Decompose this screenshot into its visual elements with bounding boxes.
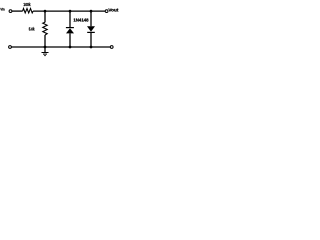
node junction dot bottom of R2 [44, 46, 47, 49]
node junction dot top of D2 [90, 10, 93, 13]
svg-text:1N4148: 1N4148 [73, 18, 89, 23]
terminal Vout (open circle) [105, 10, 108, 13]
svg-text:100k: 100k [23, 2, 31, 7]
svg-text:5.6k: 5.6k [29, 26, 35, 31]
ground symbol [42, 47, 49, 56]
node junction dot top of R2 [44, 10, 47, 13]
terminal bottom-right (open circle) [110, 46, 113, 49]
wire top: Vin terminal to R1 [12, 10, 23, 12]
svg-text:Vout: Vout [108, 8, 119, 13]
resistor R1 100k (horizontal zigzag) [23, 9, 33, 13]
terminal Vin (open circle) [9, 10, 12, 13]
svg-text:Vin: Vin [0, 8, 5, 12]
node junction dot bottom of D1 [69, 46, 72, 49]
wire top: R1 to Vout terminal [33, 10, 105, 12]
resistor R2 5.6k (vertical zigzag with leads) [43, 11, 47, 47]
diode D2 (pointing down, cathode bar at bottom) [87, 11, 95, 47]
node junction dot bottom of D2 [90, 46, 93, 49]
wire bottom rail [12, 46, 111, 48]
terminal bottom-left (open circle) [9, 46, 12, 49]
diode D1 (pointing up, cathode bar on top) [66, 11, 74, 47]
node junction dot top of D1 [69, 10, 72, 13]
